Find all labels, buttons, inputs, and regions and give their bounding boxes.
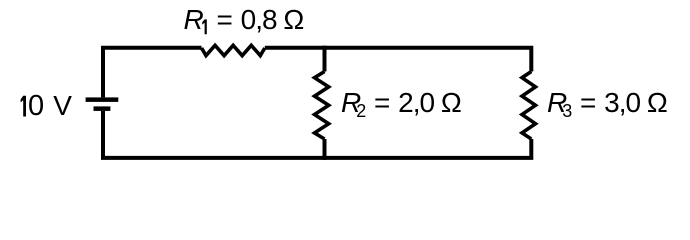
resistor R2 (vertical zigzag, middle branch) bbox=[315, 72, 329, 140]
wire: top wire from R1 across node A to top-right corner, down to R3 bbox=[265, 48, 532, 72]
label: resistor R3 value (R3 = 3,0 Ohm) bbox=[547, 89, 668, 117]
wire: middle branch lower segment (R2 down to bottom-wire junction) bbox=[323, 139, 327, 160]
wire: right branch lower segment + bottom return wire + left branch lower segment (to battery -) bbox=[103, 111, 531, 158]
label: battery value 10 V bbox=[28, 92, 72, 121]
label: battery value 10 V, digit 1 (custom Arial-style glyph) bbox=[21, 96, 26, 117]
label: resistor R1 value (R1 = 0,8 Ohm) bbox=[184, 6, 305, 34]
resistor R1 (zigzag on top wire) bbox=[202, 45, 265, 55]
wire: middle branch upper segment (node A down to R2) bbox=[323, 46, 327, 72]
wire: left branch top segment + top wire to R1 (battery + terminal up and right to R1) bbox=[103, 48, 202, 98]
label: R1 subscript index 1 (custom Arial-style glyph) bbox=[202, 19, 207, 34]
resistor R3 (vertical zigzag, right branch) bbox=[522, 72, 536, 140]
battery 10 V: negative plate (short, bottom) bbox=[94, 106, 111, 111]
battery 10 V: positive plate (long, top) bbox=[86, 97, 119, 102]
label: resistor R2 value (R2 = 2,0 Ohm) bbox=[341, 89, 462, 117]
